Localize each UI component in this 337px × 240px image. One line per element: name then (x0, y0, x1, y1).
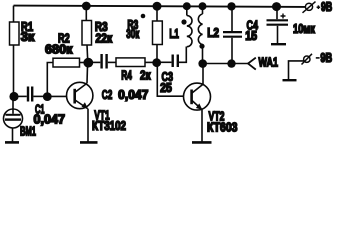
ground below 10uF (271, 43, 286, 45)
inductor L1 (187, 6, 192, 47)
label asterisk mark (141, 14, 146, 19)
wire bus to R3 (85, 6, 87, 21)
svg-text:22к: 22к (95, 31, 112, 45)
svg-text:25: 25 (160, 81, 172, 95)
capacitor C3 (173, 55, 178, 68)
wire R2 left branch to base junction (47, 63, 53, 97)
svg-text:30к: 30к (126, 27, 139, 41)
svg-text:BM1: BM1 (20, 125, 36, 139)
capacitor C1 (28, 87, 32, 102)
svg-text:КТ603: КТ603 (207, 120, 238, 134)
resistor R3 30k (153, 21, 163, 45)
capacitor C4 (223, 6, 242, 63)
svg-text:L2: L2 (207, 26, 219, 40)
wire R2 to VT1 collector node (80, 62, 89, 64)
node junction VT2 base (152, 58, 161, 67)
wire base junction to VT1 base (47, 95, 67, 97)
wire left rail from R1 to mic node (13, 45, 15, 97)
wire R3 30k to VT2 base node (156, 45, 158, 63)
node junction VT1 collector (83, 58, 93, 68)
wire mic node to C1 (14, 95, 27, 97)
node junction VT2 collector (198, 59, 207, 68)
wire VT1 emitter to ground (87, 109, 89, 142)
node junction VT1 base / R2 (43, 92, 52, 101)
transistor VT1 (67, 82, 93, 109)
svg-text:9В: 9В (320, 51, 332, 65)
capacitor electrolytic 10uF (267, 7, 289, 44)
svg-text:0,047: 0,047 (118, 88, 148, 102)
resistor R4 (116, 58, 145, 67)
svg-text:R4: R4 (121, 69, 132, 83)
microphone BM1 (4, 97, 23, 142)
terminal -9V (302, 54, 313, 65)
wire base node to C3 (157, 61, 171, 63)
wire C4 node to antenna (232, 63, 249, 65)
inductor L2 (198, 6, 202, 63)
svg-text:10мк: 10мк (293, 22, 316, 36)
resistor R3 22k (82, 21, 92, 46)
wire VT2 emitter to ground (201, 110, 203, 142)
svg-text:680к: 680к (45, 43, 73, 57)
transistor VT2 (184, 83, 211, 110)
svg-text:0,047: 0,047 (34, 112, 66, 126)
node junction bus / 10uF (272, 2, 281, 11)
wire C2 to R4 (108, 61, 116, 63)
wire base node down and right to VT2 base (157, 63, 183, 97)
wire C1 to base junction (33, 95, 47, 97)
ground below -9V wire (283, 79, 297, 81)
label -9V net (316, 51, 332, 65)
wire R4 to VT2 base node (145, 61, 157, 63)
wire -9V terminal to ground (289, 61, 304, 79)
svg-text:15: 15 (245, 29, 257, 43)
node junction bus / L1 (183, 2, 191, 10)
ground below VT2 (192, 141, 212, 144)
capacitor C2 (102, 54, 107, 69)
wire +9V top supply bus (14, 6, 306, 7)
svg-text:WA1: WA1 (259, 56, 279, 70)
resistor R2 (53, 58, 80, 67)
wire collector node to C2 (88, 61, 100, 63)
node junction C4 bottom / antenna (227, 59, 235, 67)
svg-text:C2: C2 (102, 88, 113, 102)
svg-text:2к: 2к (140, 69, 151, 83)
wire bus to R3 30k (156, 6, 158, 21)
node junction BM1/C1 (9, 92, 18, 101)
ground below VT1 (80, 141, 98, 144)
wire left rail from bus to R1 (13, 6, 15, 22)
terminal +9V (303, 2, 316, 13)
svg-text:L1: L1 (169, 27, 179, 41)
wire VT1 collector to junction (86, 63, 89, 84)
node L1 winding polarity dot (181, 19, 186, 24)
antenna WA1 arrow (248, 58, 256, 70)
node junction bus / L2 (199, 2, 207, 10)
node junction bus / C4 (227, 2, 235, 10)
wire C3 to L1 bottom (179, 47, 186, 63)
wire collector node to C4 node (203, 63, 232, 65)
node junction bus / R3 (82, 2, 91, 11)
wire R3 to collector node (86, 45, 89, 63)
svg-text:9В: 9В (321, 0, 332, 14)
svg-text:КТ3102: КТ3102 (92, 119, 126, 133)
node L2 winding polarity dot (199, 44, 204, 49)
node junction bus / R3 30k (153, 2, 162, 11)
resistor R1 (10, 22, 20, 45)
label +9V net (317, 0, 333, 14)
wire VT2 collector to junction (202, 64, 204, 85)
svg-text:3к: 3к (21, 30, 35, 44)
ground below BM1 (5, 141, 19, 144)
